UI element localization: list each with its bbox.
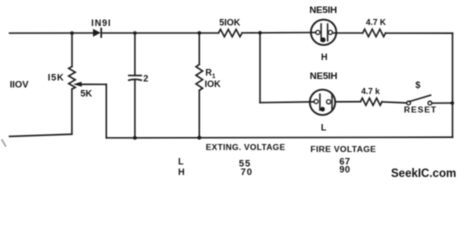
svg-text:5IOK: 5IOK [219, 17, 241, 27]
svg-text:IOK: IOK [205, 79, 222, 89]
wire top rail diode to 510K [102, 32, 219, 34]
svg-text:H: H [321, 52, 328, 62]
node junction dot L branch [258, 31, 262, 35]
node junction dot R1 branch top [198, 31, 202, 35]
svg-text:5K: 5K [80, 88, 92, 98]
resistor R1 10K branch [196, 33, 203, 138]
svg-text:NE5IH: NE5IH [310, 71, 338, 82]
node junction dot at 15K pot tap on top rail [70, 31, 74, 35]
svg-text:L: L [178, 156, 184, 166]
wire bottom left segment [10, 134, 72, 136]
svg-text:70: 70 [241, 166, 253, 177]
capacitor C 2uF branch [129, 33, 141, 138]
svg-text:2: 2 [143, 74, 148, 84]
svg-text:4.7 K: 4.7 K [366, 17, 386, 27]
neon lamp U1 NE51H (H) [311, 20, 336, 45]
svg-text:H: H [178, 167, 185, 177]
wire lamp H to 4.7K [333, 32, 363, 34]
wire 4.7k to switch [382, 102, 407, 103]
svg-text:I5K: I5K [48, 73, 65, 83]
svg-text:RESET: RESET [404, 105, 437, 115]
wire right rail vertical [452, 33, 454, 137]
node junction dot capacitor bottom [133, 136, 137, 140]
svg-text:IN9I: IN9I [91, 18, 111, 28]
scan smudge left edge [2, 140, 6, 146]
svg-text:SeekIC.com: SeekIC.com [391, 168, 456, 180]
svg-text:4.7 k: 4.7 k [361, 86, 380, 96]
wire lamp L to 4.7k [335, 101, 360, 103]
wire bottom rail [106, 136, 452, 139]
node junction dot R1 bottom [197, 136, 201, 140]
resistor 4.7K upper [363, 29, 386, 37]
svg-text:IIOV: IIOV [10, 79, 30, 90]
neon lamp U2 NE51H (L) [310, 90, 335, 115]
switch S RESET [407, 95, 432, 105]
svg-text:$: $ [415, 80, 420, 90]
resistor 510K [219, 29, 242, 36]
wire 4.7K to right rail [386, 32, 453, 34]
node junction dot switch to right rail [451, 101, 455, 105]
node junction dot capacitor branch top [133, 31, 137, 35]
diode 1N91 [93, 29, 101, 37]
wire 510K to lamp H [242, 32, 316, 34]
svg-text:EXTING. VOLTAGE: EXTING. VOLTAGE [206, 142, 286, 152]
svg-text:90: 90 [339, 165, 350, 175]
svg-text:NE5IH: NE5IH [309, 5, 337, 16]
wire switch to right rail [432, 102, 453, 104]
resistor 4.7k lower [361, 98, 382, 105]
potentiometer wiper arrow 5K tap [73, 82, 106, 138]
svg-text:L: L [321, 122, 327, 132]
wire L branch vertical and horizontal to lamp L [260, 33, 314, 103]
potentiometer 15K body [69, 33, 76, 134]
svg-text:FIRE VOLTAGE: FIRE VOLTAGE [310, 144, 376, 154]
wire top rail left segment [10, 32, 94, 34]
